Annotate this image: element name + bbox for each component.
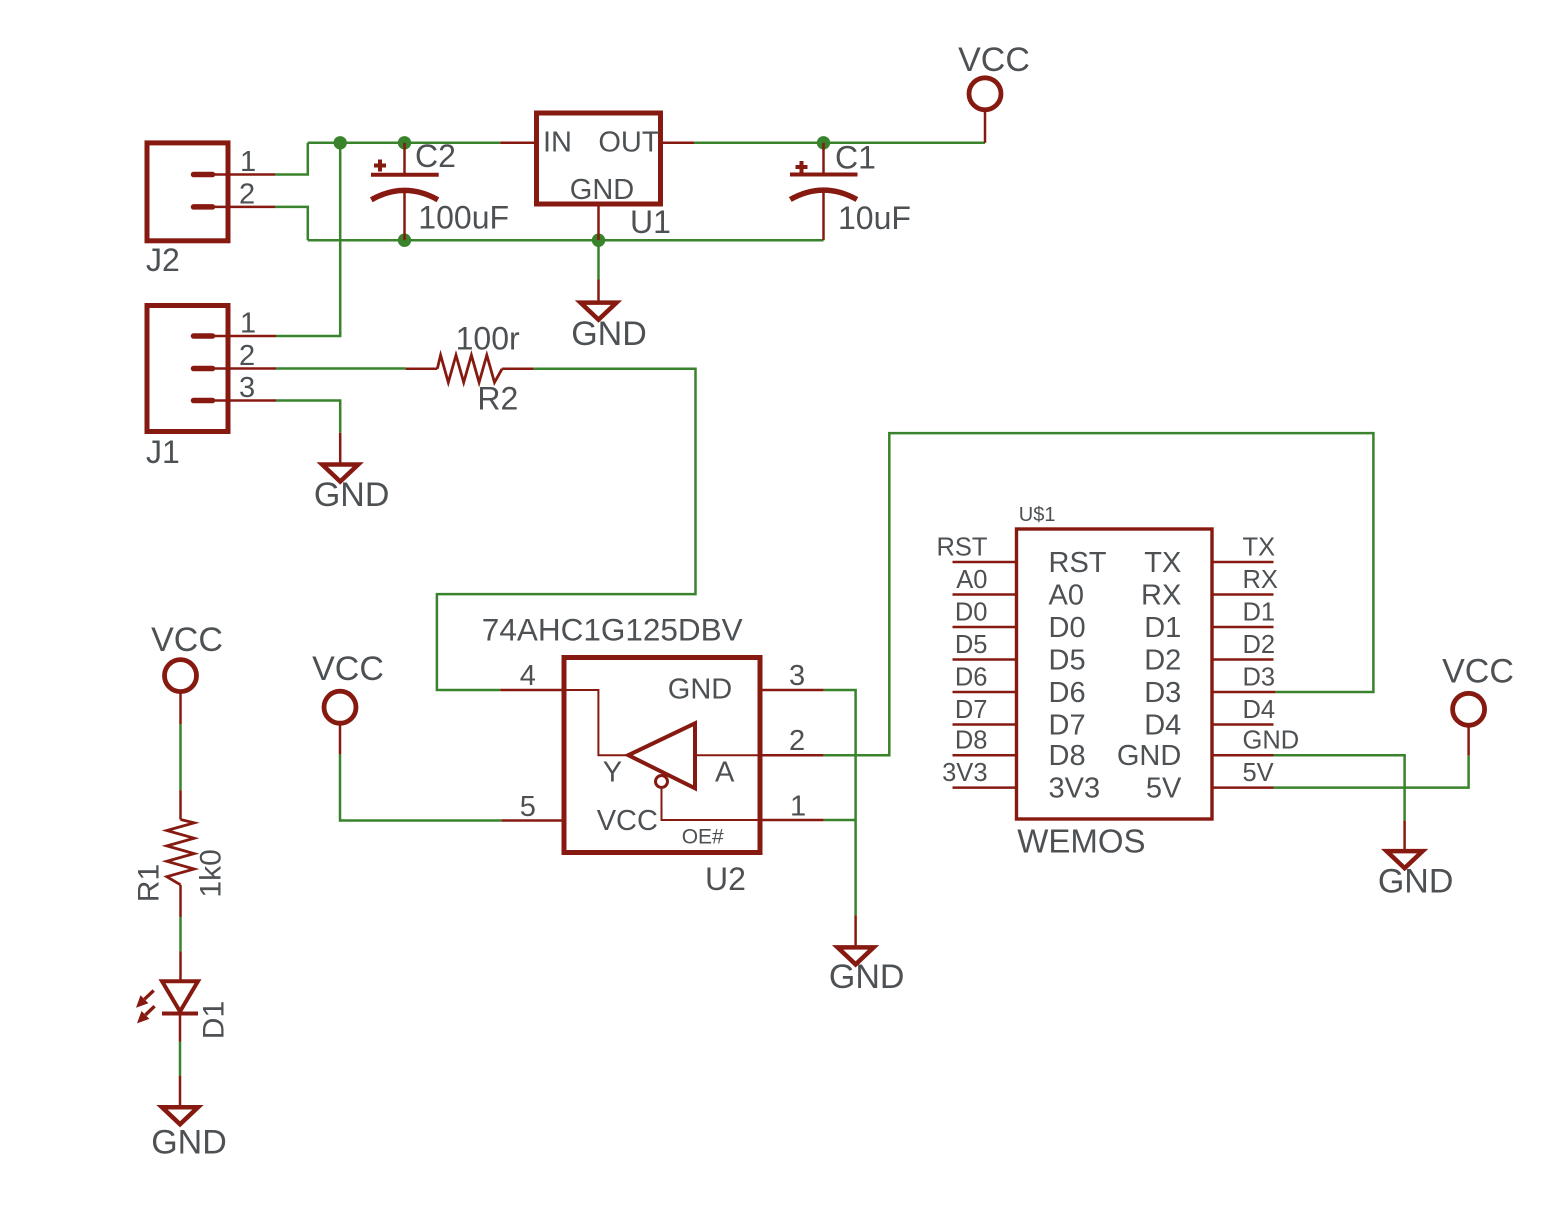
U$1 pin D8 — [953, 754, 1017, 757]
svg-text:A0: A0 — [1049, 580, 1084, 612]
svg-text:D8: D8 — [1049, 740, 1086, 772]
svg-text:5V: 5V — [1146, 773, 1182, 805]
svg-text:1: 1 — [790, 791, 806, 823]
wire J2.2 to GND rail — [275, 207, 308, 240]
wire VIN top rail — [308, 142, 500, 145]
LED D1 — [136, 951, 231, 1041]
wire R2 to U2 pin 4 — [437, 369, 696, 690]
svg-text:D0: D0 — [1049, 612, 1086, 644]
U$1 pin D0 — [953, 626, 1017, 629]
wire U2 pin 2 to WEMOS D3 — [824, 433, 1374, 755]
svg-text:D1: D1 — [1243, 599, 1276, 627]
ground symbol under U2 — [829, 915, 905, 996]
junction U1 GND — [592, 234, 605, 247]
wire GND bottom rail — [308, 239, 824, 242]
wire U2 pin 3 to ground — [824, 690, 856, 915]
svg-text:VCC: VCC — [312, 650, 384, 688]
svg-text:OUT: OUT — [598, 126, 660, 158]
svg-text:D5: D5 — [955, 631, 988, 659]
svg-text:R2: R2 — [477, 380, 518, 416]
svg-text:4: 4 — [520, 660, 536, 692]
svg-text:Y: Y — [603, 757, 622, 789]
wire J1.2 to R2 — [276, 367, 406, 370]
svg-text:D2: D2 — [1144, 645, 1181, 677]
svg-text:J1: J1 — [146, 434, 180, 470]
svg-text:10uF: 10uF — [838, 200, 911, 236]
svg-text:D8: D8 — [955, 727, 988, 755]
wire U1 OUT to VCC — [694, 142, 985, 145]
svg-text:A: A — [715, 757, 735, 789]
resistor R1 — [133, 790, 228, 917]
wire U2 pin 1 to ground — [824, 819, 856, 822]
svg-text:WEMOS: WEMOS — [1017, 822, 1145, 859]
svg-text:D3: D3 — [1243, 664, 1276, 692]
U1 IN pin lead — [500, 142, 536, 145]
svg-text:1k0: 1k0 — [195, 849, 228, 897]
svg-text:GND: GND — [668, 673, 732, 705]
svg-text:GND: GND — [314, 476, 390, 514]
IC U2 74AHC1G125 — [482, 612, 760, 897]
svg-text:3: 3 — [239, 372, 255, 404]
svg-text:100r: 100r — [456, 321, 520, 357]
svg-text:GND: GND — [1378, 863, 1454, 901]
svg-text:VCC: VCC — [597, 805, 658, 837]
svg-text:D3: D3 — [1144, 677, 1181, 709]
resistor R2 — [406, 321, 534, 417]
U$1 pin A0 — [953, 593, 1017, 596]
svg-text:A0: A0 — [956, 566, 987, 594]
wire J1.1 to VIN rail riser — [276, 143, 340, 336]
svg-text:5V: 5V — [1243, 759, 1274, 787]
capacitor C2 — [371, 138, 509, 240]
svg-text:3V3: 3V3 — [1049, 773, 1101, 805]
U$1 pin D5 — [953, 658, 1017, 661]
capacitor C1 — [790, 140, 911, 241]
svg-text:RX: RX — [1141, 580, 1181, 612]
power flag VCC top — [958, 41, 1030, 143]
svg-text:RST: RST — [937, 534, 988, 562]
svg-text:GND: GND — [571, 315, 647, 353]
wire U$1 5V to VCC — [1274, 756, 1469, 788]
wire VCC to R1 — [179, 724, 182, 790]
wire U1 GND down — [597, 240, 600, 279]
svg-text:1: 1 — [240, 308, 256, 340]
wire VCC to U2 pin 5 — [340, 754, 501, 821]
junction C2 top — [398, 136, 411, 149]
U$1 pin D7 — [953, 723, 1017, 726]
svg-text:VCC: VCC — [151, 621, 223, 659]
ground symbol under J1 — [314, 433, 390, 514]
svg-text:TX: TX — [1243, 534, 1276, 562]
power flag VCC mid-left — [312, 650, 384, 754]
U$1 pin TX — [1212, 561, 1274, 564]
svg-text:D1: D1 — [198, 1001, 231, 1039]
svg-text:D7: D7 — [955, 696, 988, 724]
junction VIN/J1 riser — [334, 136, 347, 149]
svg-text:2: 2 — [789, 725, 805, 757]
svg-text:D7: D7 — [1049, 710, 1086, 742]
svg-text:J2: J2 — [146, 242, 180, 278]
svg-text:100uF: 100uF — [418, 200, 509, 236]
ground symbol under U1 — [571, 280, 647, 353]
U$1 pin RX — [1212, 593, 1274, 596]
regulator U1 — [537, 113, 671, 240]
svg-text:5: 5 — [520, 791, 536, 823]
connector J1 — [146, 306, 228, 471]
junction C1 top — [817, 136, 830, 149]
U$1 pin RST — [953, 561, 1017, 564]
U$1 pin D3 — [1212, 691, 1275, 694]
svg-text:GND: GND — [829, 958, 905, 996]
connector J2 — [146, 143, 228, 278]
wire U$1 GND to ground — [1274, 755, 1405, 820]
svg-text:TX: TX — [1144, 547, 1181, 579]
svg-text:VCC: VCC — [958, 41, 1030, 79]
U$1 pin 5V — [1212, 786, 1274, 789]
U1 OUT pin lead — [661, 142, 695, 145]
U$1 pin D1 — [1212, 626, 1274, 629]
svg-text:GND: GND — [151, 1124, 227, 1162]
svg-text:D5: D5 — [1049, 645, 1086, 677]
svg-text:U2: U2 — [705, 861, 746, 897]
svg-text:GND: GND — [1243, 727, 1300, 755]
svg-text:VCC: VCC — [1442, 652, 1514, 690]
svg-text:IN: IN — [543, 126, 572, 158]
svg-text:U1: U1 — [630, 204, 671, 240]
svg-text:3: 3 — [789, 660, 805, 692]
ground symbol bottom-left — [151, 1076, 227, 1162]
ground symbol right — [1378, 820, 1454, 900]
U$1 pin D4 — [1212, 723, 1274, 726]
svg-text:D6: D6 — [1049, 677, 1086, 709]
svg-text:2: 2 — [239, 340, 255, 372]
svg-text:3V3: 3V3 — [942, 759, 987, 787]
svg-text:R1: R1 — [133, 864, 166, 902]
svg-text:C2: C2 — [415, 138, 456, 174]
svg-text:D1: D1 — [1144, 612, 1181, 644]
U$1 pin D6 — [953, 691, 1017, 694]
svg-text:D0: D0 — [955, 599, 988, 627]
junction C2 bottom — [398, 234, 411, 247]
svg-text:RST: RST — [1049, 547, 1107, 579]
svg-text:OE#: OE# — [682, 825, 724, 848]
wire D1 to ground — [179, 1042, 182, 1076]
svg-text:D4: D4 — [1243, 696, 1276, 724]
power flag VCC right — [1442, 652, 1514, 755]
wire R1 to D1 — [179, 917, 182, 951]
svg-text:GND: GND — [1117, 740, 1181, 772]
svg-text:1: 1 — [240, 146, 256, 178]
power flag VCC bottom-left — [151, 621, 223, 724]
wire J2.1 to VIN rail — [275, 143, 308, 175]
svg-text:RX: RX — [1243, 566, 1278, 594]
svg-text:U$1: U$1 — [1019, 504, 1056, 526]
U$1 pin GND — [1212, 754, 1274, 757]
U1 GND pin lead — [597, 204, 600, 240]
wire J1.3 to ground — [276, 401, 340, 433]
svg-text:D4: D4 — [1144, 710, 1181, 742]
U$1 pin 3V3 — [953, 786, 1017, 789]
svg-text:C1: C1 — [835, 140, 876, 176]
module U$1 WEMOS — [1017, 504, 1213, 859]
svg-text:74AHC1G125DBV: 74AHC1G125DBV — [482, 612, 743, 648]
svg-text:D2: D2 — [1243, 631, 1276, 659]
svg-text:D6: D6 — [955, 664, 988, 692]
U$1 pin D2 — [1212, 658, 1274, 661]
svg-text:GND: GND — [570, 174, 634, 206]
